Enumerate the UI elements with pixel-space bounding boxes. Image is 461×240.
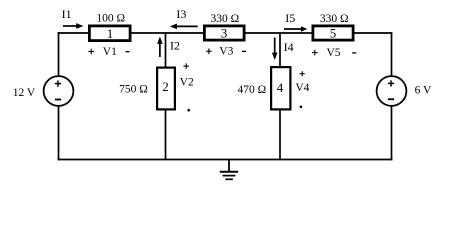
svg-text:V3: V3	[219, 46, 233, 58]
R2 polarity plus	[183, 63, 189, 69]
wire left vertical upper (12V top to top wire)	[58, 32, 60, 76]
svg-text:750 Ω: 750 Ω	[119, 83, 148, 95]
resistor R4 box	[271, 67, 290, 109]
R2 polarity mark (comma)	[187, 109, 190, 112]
VS2 minus symbol	[388, 98, 394, 100]
svg-text:100 Ω: 100 Ω	[96, 13, 125, 25]
svg-text:I4: I4	[284, 40, 294, 54]
ground bar 2	[223, 175, 236, 177]
svg-text:4: 4	[277, 80, 284, 95]
wire node B down to R4	[279, 33, 281, 67]
svg-text:2: 2	[162, 79, 169, 94]
VS1 minus symbol	[55, 99, 61, 101]
resistor R2 box	[157, 68, 175, 110]
svg-text:I5: I5	[285, 11, 295, 25]
current arrow I2 (points up)	[157, 37, 163, 58]
R4 polarity plus	[300, 71, 305, 76]
current arrow I4 (points down)	[272, 38, 278, 61]
svg-text:5: 5	[330, 26, 337, 41]
resistor R1 box	[89, 26, 130, 41]
svg-text:V4: V4	[295, 82, 309, 94]
bottom wire	[58, 159, 393, 161]
wire R5 to right branch	[353, 32, 393, 34]
R1 polarity + V1 -	[88, 49, 129, 55]
svg-text:6 V: 6 V	[415, 85, 432, 97]
wire R2 down to bottom wire	[165, 110, 167, 160]
voltage source VS1 12V circle	[44, 76, 74, 106]
R3 polarity + V3 -	[206, 48, 246, 54]
svg-text:V1: V1	[103, 46, 117, 58]
svg-text:I1: I1	[62, 7, 72, 21]
wire right vertical upper (top wire to 6V top)	[391, 32, 393, 76]
ground stem	[228, 160, 230, 172]
current arrow I3 (points left)	[170, 24, 198, 30]
svg-text:1: 1	[107, 26, 114, 41]
VS2 plus symbol	[388, 80, 394, 86]
ground bar 1	[220, 171, 238, 173]
wire top-left horizontal from 12V branch to R1	[58, 32, 89, 34]
svg-text:330 Ω: 330 Ω	[320, 13, 349, 25]
svg-text:V2: V2	[180, 77, 194, 89]
wire R4 down to bottom wire	[279, 110, 281, 160]
wire right vertical lower (6V bottom to bottom wire)	[391, 106, 393, 161]
R5 polarity + V5 -	[312, 50, 356, 56]
svg-text:12 V: 12 V	[13, 87, 36, 99]
svg-text:I2: I2	[170, 38, 180, 52]
R4 polarity mark (comma)	[300, 106, 303, 109]
current arrow I1	[63, 23, 83, 29]
voltage source VS2 6V circle	[377, 76, 407, 106]
wire R3 to R5 (node B)	[244, 32, 313, 34]
svg-text:470 Ω: 470 Ω	[237, 84, 266, 96]
wire R1 to R3 (node A)	[130, 32, 204, 34]
svg-text:3: 3	[221, 26, 228, 41]
VS1 plus symbol	[55, 81, 61, 87]
resistor R5 box	[313, 26, 353, 40]
wire left vertical lower (12V bottom to bottom wire)	[58, 106, 60, 161]
current arrow I5 (points right)	[284, 26, 307, 32]
wire node A down to R2	[165, 33, 167, 67]
svg-text:I3: I3	[176, 7, 186, 21]
svg-text:330 Ω: 330 Ω	[210, 13, 239, 25]
resistor R3 box	[204, 26, 244, 40]
svg-text:V5: V5	[326, 47, 340, 59]
ground bar 3	[225, 178, 233, 180]
